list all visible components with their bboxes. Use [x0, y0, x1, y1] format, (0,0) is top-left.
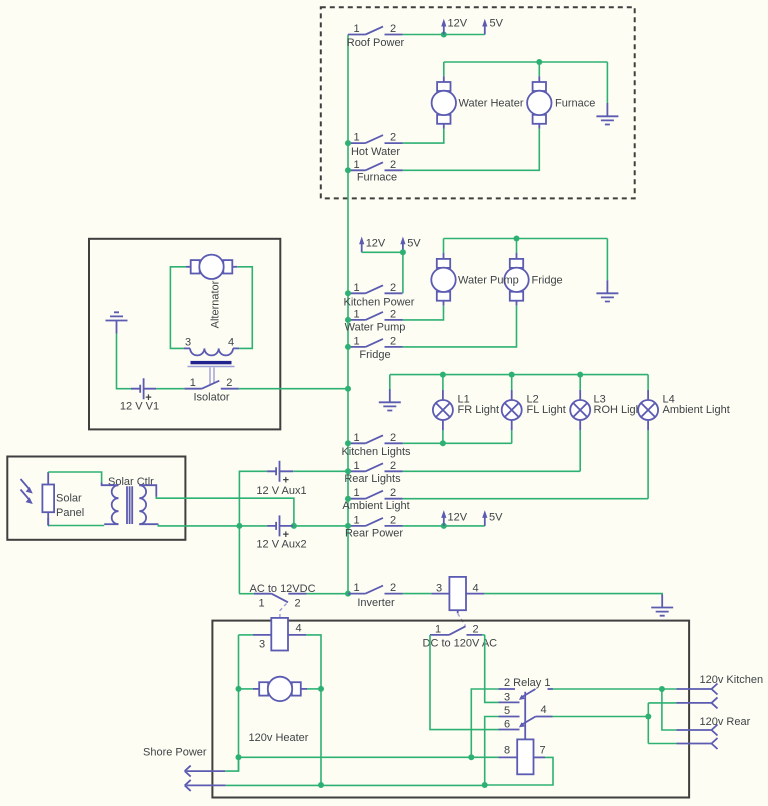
wire water heater / furnace top rail: [444, 61, 608, 63]
svg-text:5V: 5V: [489, 512, 503, 524]
wire heater left rail: [238, 635, 240, 771]
svg-text:1: 1: [353, 582, 359, 594]
relay contact arm 2: [522, 717, 536, 725]
node junction dot kitchen1 / rear1 branch: [659, 686, 665, 692]
node junction dot heater left: [236, 686, 242, 692]
svg-text:1: 1: [353, 432, 359, 444]
switch SW Kitchen Lights: [341, 432, 411, 458]
wire fridge drop: [516, 239, 518, 254]
node junction dot bus/ambient light: [345, 496, 351, 502]
svg-text:12 V V1: 12 V V1: [120, 401, 159, 413]
svg-text:Water Heater: Water Heater: [459, 98, 524, 110]
switch SW Ambient Light: [342, 487, 409, 512]
svg-text:Kitchen Lights: Kitchen Lights: [341, 446, 411, 458]
svg-text:5: 5: [504, 705, 510, 717]
wire kitchen lights to L1,L2: [403, 442, 512, 444]
svg-text:Ambient Light: Ambient Light: [663, 404, 730, 416]
wire relay pin4 to connector verticals: [553, 716, 649, 718]
switch SW Roof Power: [347, 23, 405, 49]
dashed boundary box (roof section): [321, 7, 635, 198]
connector Shore Power prong 1: [143, 747, 225, 777]
solar section box: [7, 457, 185, 540]
svg-text:2: 2: [390, 308, 396, 320]
node junction dot heater right: [318, 686, 324, 692]
svg-text:2: 2: [390, 159, 396, 171]
node junction dot kitchen 5V tap: [400, 249, 406, 255]
wire inverter to relay coil pin3: [403, 593, 432, 595]
relay contact arm 1: [522, 689, 536, 697]
wire controller secondary top output: [156, 497, 294, 526]
wire relay pin5 down to neutral row: [485, 717, 499, 786]
svg-text:Furnace: Furnace: [357, 172, 397, 184]
svg-text:2: 2: [390, 335, 396, 347]
isolator relay actuator linkage: [210, 368, 214, 386]
switch SW DC to 120V AC (relay contact): [423, 624, 498, 650]
connector Shore Power prong 2: [185, 780, 226, 791]
relay K 2 Relay 1 (DPDT): [498, 677, 553, 774]
switch SW Kitchen Power: [344, 282, 415, 309]
motor M Water Heater: [432, 76, 524, 129]
svg-text:Isolator: Isolator: [193, 392, 229, 404]
svg-text:2: 2: [390, 132, 396, 144]
svg-text:120v Heater: 120v Heater: [249, 732, 309, 744]
svg-text:120v Rear: 120v Rear: [700, 716, 751, 728]
wire relay pin1 to kitchen connector: [553, 688, 677, 690]
wire connector vertical kitchen2/rear2: [647, 703, 649, 744]
svg-text:3: 3: [436, 583, 442, 595]
svg-text:2: 2: [390, 432, 396, 444]
wire AC switch output to bus/inverter row: [307, 593, 349, 595]
power flag 5V (rear): [482, 510, 503, 526]
wire rear power to 12V/5V taps: [403, 525, 485, 527]
svg-text:4: 4: [540, 704, 546, 716]
svg-text:1: 1: [353, 159, 359, 171]
relay coil (pins 8-7): [499, 756, 518, 758]
motor M Furnace: [527, 76, 595, 129]
wire DC switch pin2 corner: [482, 634, 485, 636]
node junction dot bus/kitchen power: [345, 290, 351, 296]
switch SW Rear Lights: [344, 460, 402, 485]
svg-text:2: 2: [390, 23, 396, 35]
switch SW AC to 12VDC (relay contact, inverted): [239, 583, 315, 610]
node junction dot bus/furnace: [345, 167, 351, 173]
motor M Fridge: [504, 253, 562, 306]
power flag 12V (rear): [441, 510, 468, 526]
isolator relay core thin line: [188, 366, 235, 368]
node junction dot solar/aux2 row: [291, 523, 297, 529]
svg-text:Hot Water: Hot Water: [351, 146, 400, 158]
wire aux1 to bus: [293, 470, 348, 472]
node junction dot aux1-drop/aux2 row: [236, 523, 242, 529]
switch SW Rear Power: [345, 514, 403, 539]
svg-text:4: 4: [228, 336, 234, 348]
wire alternator left loop: [170, 267, 186, 349]
switch SW Inverter: [348, 582, 403, 609]
svg-text:12 V Aux1: 12 V Aux1: [256, 485, 306, 497]
relay pin 3 stub: [499, 701, 520, 703]
relay linkage vertical: [524, 692, 526, 740]
node junction dot pin2 feed / shore row: [468, 754, 474, 760]
svg-text:2: 2: [390, 514, 396, 526]
svg-text:1: 1: [258, 598, 264, 610]
svg-text:4: 4: [295, 623, 301, 635]
wire to rear connector 2: [648, 743, 676, 745]
node junction dot bus/kitchen lights: [345, 440, 351, 446]
node junction dot rear 12V tap: [441, 523, 447, 529]
svg-text:7: 7: [539, 745, 545, 757]
solar panel light arrows: [21, 479, 33, 504]
connector 120v Kitchen prong 2: [677, 697, 718, 708]
svg-text:120v Kitchen: 120v Kitchen: [700, 674, 764, 686]
svg-text:12V: 12V: [448, 512, 468, 524]
svg-text:Roof Power: Roof Power: [347, 37, 405, 49]
node junction dot neutral row / pin5 drop: [482, 782, 488, 788]
lamp L2 FL Light: [502, 375, 566, 444]
wire branch to rear connector 1: [662, 689, 677, 730]
battery BT 12 V V1: [120, 378, 159, 412]
wire controller secondary bottom output: [158, 524, 185, 526]
node junction dot L1 bottom: [440, 440, 446, 446]
relay pin 6 stub: [499, 729, 520, 731]
svg-text:Solar: Solar: [56, 493, 82, 505]
wire fridge switch to motor bottom: [403, 306, 517, 347]
svg-text:Water Pump: Water Pump: [458, 275, 519, 287]
svg-text:Fridge: Fridge: [359, 349, 390, 361]
relay pin 2 stub: [498, 688, 515, 690]
inverter relay actuator dashed linkage: [458, 614, 466, 626]
transformer T Solar Ctlr: [102, 476, 159, 524]
wire battery to isolator: [156, 388, 184, 390]
svg-text:Inverter: Inverter: [357, 597, 395, 609]
svg-text:Shore Power: Shore Power: [143, 747, 207, 759]
wire relay pin2 feed drop: [471, 689, 498, 757]
svg-text:12 V Aux2: 12 V Aux2: [256, 539, 306, 551]
connector 120v Rear prong 2: [677, 738, 718, 749]
lamp L1 FR Light: [433, 375, 499, 444]
svg-text:1: 1: [353, 132, 359, 144]
svg-text:FR Light: FR Light: [458, 404, 500, 416]
relay coil L Isolator (inductor 3-4): [184, 336, 239, 355]
lamp L3 ROH Light: [570, 375, 645, 472]
node junction dot fridge top: [514, 236, 520, 242]
svg-text:ROH Light: ROH Light: [594, 404, 645, 416]
svg-text:3: 3: [185, 336, 191, 348]
svg-text:Ambient Light: Ambient Light: [342, 500, 409, 512]
svg-text:5V: 5V: [490, 18, 504, 30]
motor M Water Pump: [431, 253, 455, 306]
svg-text:1: 1: [353, 335, 359, 347]
node junction dot pin4 / connector vertical: [645, 714, 651, 720]
svg-text:FL Light: FL Light: [527, 404, 566, 416]
wire isolator output to bus: [239, 388, 348, 390]
svg-text:1: 1: [353, 514, 359, 526]
svg-text:Panel: Panel: [56, 507, 84, 519]
wire solar panel top to controller: [48, 472, 101, 483]
ground (lights rail): [379, 375, 401, 411]
ground (inverter): [651, 595, 673, 616]
node junction dot bus/isolator: [345, 386, 351, 392]
wire furnace switch to furnace motor bottom: [403, 129, 540, 171]
wire roof power output to 12V/5V taps: [403, 34, 485, 36]
node junction dot bus/water pump: [345, 317, 351, 323]
wire DC switch pin1 down to relay pin6: [430, 635, 499, 730]
svg-text:2: 2: [390, 487, 396, 499]
AC relay actuator dashed linkage: [280, 604, 287, 618]
svg-text:2 Relay 1: 2 Relay 1: [504, 677, 550, 689]
node junction dot L2 top: [509, 372, 515, 378]
switch SW Hot Water: [348, 132, 403, 158]
svg-text:Rear Lights: Rear Lights: [344, 473, 401, 485]
battery BT 12 V Aux2: [256, 515, 306, 550]
svg-text:1: 1: [353, 282, 359, 294]
wire rear lights to L3: [403, 470, 581, 472]
wire hot water to water heater bottom: [403, 129, 444, 143]
svg-text:DC to 120V AC: DC to 120V AC: [423, 638, 498, 650]
power flag 5V (roof): [482, 18, 503, 35]
svg-text:1: 1: [353, 487, 359, 499]
svg-text:2: 2: [294, 598, 300, 610]
wire shore prong1 to hot rail: [225, 757, 238, 771]
node junction dot bus/rear power: [345, 523, 351, 529]
wire solar panel bottom to primary: [48, 525, 104, 527]
wire relay pin7 to neutral row: [485, 757, 553, 785]
relay coil K AC-DC converter (pins 3-4): [239, 618, 307, 651]
relay pin 4 stub: [536, 716, 553, 718]
ground (roof section): [596, 62, 618, 125]
wire main 12V bus vertical x=348: [347, 35, 349, 594]
power flag 5V (kitchen): [400, 237, 421, 253]
svg-text:Furnace: Furnace: [555, 98, 595, 110]
wire to kitchen connector 2: [648, 702, 676, 704]
relay pin 1 stub: [548, 688, 554, 690]
svg-text:8: 8: [504, 745, 510, 757]
wire aux1 left drop to aux2 row: [239, 471, 267, 593]
node junction dot neutral row / heater rail: [318, 782, 324, 788]
solar panel PV cell: [42, 472, 84, 526]
switch SW Water Pump: [345, 308, 406, 333]
node junction dot L3 top: [577, 372, 583, 378]
wire neutral bottom row: [226, 784, 485, 786]
wire ambient light to L4: [403, 498, 649, 500]
svg-text:Kitchen Power: Kitchen Power: [344, 296, 415, 308]
svg-text:2: 2: [390, 460, 396, 472]
switch SW Fridge: [348, 335, 403, 361]
svg-text:12V: 12V: [366, 238, 386, 250]
node junction dot bus/rear lights: [345, 468, 351, 474]
battery BT 12 V Aux1: [256, 461, 306, 497]
svg-text:6: 6: [504, 718, 510, 730]
svg-text:3: 3: [259, 639, 265, 651]
wire water pump / fridge top rail: [444, 238, 608, 240]
power flag 12V (kitchen): [359, 237, 386, 253]
wire coil pin4 to ground: [484, 594, 662, 596]
motor M Alternator: [186, 255, 237, 329]
motor M 120v Heater: [239, 677, 322, 744]
svg-text:5V: 5V: [407, 238, 421, 250]
svg-text:Fridge: Fridge: [532, 275, 563, 287]
svg-text:4: 4: [472, 583, 478, 595]
node junction dot furnace top: [536, 59, 542, 65]
svg-text:1: 1: [435, 624, 441, 636]
node junction dot bus/hot water: [345, 140, 351, 146]
svg-text:1: 1: [353, 23, 359, 35]
svg-text:Water Pump: Water Pump: [345, 322, 406, 334]
relay pin 5 stub: [499, 716, 520, 718]
wire water pump switch to motor bottom: [403, 306, 444, 320]
svg-text:2: 2: [226, 377, 232, 389]
switch SW Furnace: [348, 159, 403, 184]
wire kitchen 12V/5V tap rail: [362, 252, 403, 293]
wire water pump drop: [443, 239, 445, 254]
switch SW Isolator: [184, 377, 239, 403]
svg-text:1: 1: [353, 460, 359, 472]
isolator relay core bar: [191, 361, 232, 364]
connector 120v Kitchen prong 1: [677, 674, 764, 695]
relay coil K Inverter (pins 3-4): [431, 577, 484, 613]
svg-text:Alternator: Alternator: [210, 280, 222, 328]
node junction dot roof 12V tap: [441, 32, 447, 38]
lamp L4 Ambient Light: [638, 375, 730, 499]
wire aux2 to bus: [293, 525, 348, 527]
svg-text:1: 1: [190, 377, 196, 389]
wire DC switch pin2 down to relay pin3: [485, 635, 499, 703]
svg-text:3: 3: [504, 692, 510, 704]
node junction dot shore row / left rail: [236, 754, 242, 760]
wire lights top rail: [390, 374, 648, 376]
wire coil pin4 to heater right rail: [306, 635, 321, 785]
power flag 12V (roof): [441, 18, 468, 35]
node junction dot L1 top: [440, 372, 446, 378]
wire furnace drop from rail: [538, 62, 540, 76]
svg-text:2: 2: [390, 282, 396, 294]
wire shore hot row to relay pin8: [239, 756, 499, 758]
svg-text:12V: 12V: [448, 18, 468, 30]
svg-text:2: 2: [390, 582, 396, 594]
node junction dot bus end/inverter row: [345, 591, 351, 597]
ground (kitchen section): [596, 239, 618, 302]
node junction dot bus/fridge: [345, 344, 351, 350]
wire water heater drop from rail: [443, 62, 445, 76]
svg-text:1: 1: [353, 308, 359, 320]
wire alternator right loop: [237, 267, 252, 349]
120V section box: [212, 621, 689, 798]
ground (alternator, flipped up): [106, 312, 132, 388]
svg-text:2: 2: [472, 624, 478, 636]
alternator section box: [89, 239, 280, 430]
svg-text:Rear Power: Rear Power: [345, 528, 403, 540]
connector 120v Rear prong 1: [677, 716, 751, 736]
